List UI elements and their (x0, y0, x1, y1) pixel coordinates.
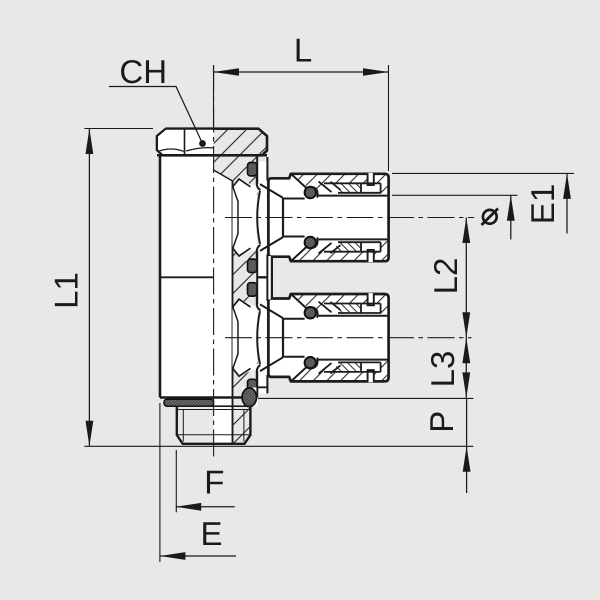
dimension P (84, 398, 473, 493)
washer seal (164, 399, 214, 406)
centerline top port axis (225, 217, 474, 219)
dim line (176, 506, 235, 508)
svg-text:E1: E1 (524, 184, 561, 224)
cartridge bottom port (233, 282, 389, 394)
arrow up outside (463, 446, 471, 472)
pocket corner lines (257, 387, 267, 397)
arrow down (86, 421, 94, 447)
svg-text:L1: L1 (48, 272, 85, 309)
dimension dia (392, 195, 518, 239)
dimension E1 (392, 173, 574, 233)
hex nut (157, 129, 267, 156)
ext line bottom (84, 445, 473, 447)
arrow left (160, 552, 186, 560)
svg-text:P: P (423, 411, 460, 433)
dim line (510, 195, 512, 239)
arrow up (563, 173, 571, 199)
arrow left (214, 68, 240, 76)
ext line (392, 194, 518, 196)
ext line (175, 450, 177, 512)
body shoulder hatch top right (258, 156, 268, 162)
bore cone line (214, 170, 233, 181)
bore wall line (232, 181, 234, 443)
arrow up (462, 218, 470, 244)
stud outline (177, 406, 251, 444)
dim line (88, 129, 90, 447)
svg-text:L2: L2 (427, 258, 464, 295)
mid bar between cartridges (257, 276, 267, 278)
dimension L1 (48, 129, 154, 447)
body section hatch (214, 156, 258, 397)
gap band white (258, 162, 266, 394)
dim line (466, 398, 468, 446)
dim line (465, 338, 467, 398)
stud o-ring pocket (242, 388, 258, 407)
dim line (214, 71, 389, 73)
dim line (566, 173, 568, 233)
arrow up (86, 129, 94, 155)
svg-text:CH: CH (119, 53, 167, 90)
arrow down (462, 312, 470, 338)
stud top line (177, 405, 251, 407)
ext line top (258, 397, 473, 399)
dimension F (176, 450, 235, 512)
body left edge (159, 155, 162, 397)
centerline bottom port axis (225, 337, 472, 339)
body face lines over cartridges (257, 157, 272, 394)
ext line top (84, 128, 153, 130)
arrow up (507, 195, 515, 221)
svg-text:F: F (204, 464, 224, 501)
dimension L3 (424, 338, 470, 398)
centerline vertical body axis (213, 65, 215, 459)
label diameter symbol (483, 210, 497, 224)
hex outline (157, 129, 267, 156)
hex bottom edge (157, 154, 267, 157)
body bottom edge (160, 396, 258, 399)
ext line right (388, 65, 390, 171)
thread crest lines (183, 410, 244, 442)
svg-text:L3: L3 (424, 351, 461, 388)
thread boundary lines (177, 410, 251, 435)
body outline (157, 155, 267, 443)
ext line (392, 172, 574, 174)
stud hatch (233, 406, 251, 444)
dim line (465, 218, 467, 338)
dim line (160, 555, 236, 557)
bore white (214, 170, 233, 444)
arrow up (462, 338, 470, 364)
arrow right (363, 68, 389, 76)
tail below (466, 446, 468, 493)
hex facet left (184, 130, 186, 156)
hex white left (158, 130, 214, 155)
flange strip edge between cartridges (271, 256, 273, 300)
dimension E (160, 403, 236, 562)
svg-text:L: L (294, 32, 312, 69)
body mid groove line (160, 276, 214, 278)
hex chamfer arcs (158, 148, 214, 152)
arrow left (176, 503, 202, 511)
body face line (256, 157, 258, 394)
body left white (external view) (160, 156, 214, 397)
arrow down (462, 372, 470, 398)
dimension L2 (427, 218, 470, 338)
flange face line (266, 157, 268, 393)
cartridge top port (233, 162, 389, 274)
svg-text:E: E (200, 515, 222, 552)
stud o-ring (242, 388, 256, 407)
flange strip white between cartridges (268, 256, 271, 300)
ext line left (213, 65, 215, 128)
hex section hatch (214, 129, 267, 156)
leader CH (109, 53, 206, 147)
dimension L (214, 32, 389, 172)
ext line (159, 403, 161, 562)
bottom stud (164, 387, 267, 444)
